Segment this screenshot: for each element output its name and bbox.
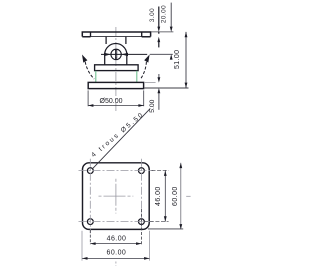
- dimension D50 line: [88, 105, 144, 107]
- dim 60 bottom ext right: [149, 231, 151, 261]
- rotation arrow right arc: [140, 62, 146, 79]
- centerline holes right column: [140, 159, 142, 229]
- hole bottom-left: [87, 219, 93, 225]
- centerline front view vertical: [115, 27, 117, 111]
- svg-text:60.00: 60.00: [107, 250, 127, 257]
- centerline holes left column: [89, 159, 91, 234]
- dim 46 bottom arrows: [90, 242, 95, 245]
- dim 46 right ext bottom: [144, 221, 168, 223]
- centerline holes top row: [79, 170, 154, 172]
- svg-text:46.00: 46.00: [155, 186, 162, 206]
- svg-text:4 trous Ø5.50: 4 trous Ø5.50: [90, 111, 146, 159]
- dimension 5.00 arrows: [158, 77, 161, 82]
- svg-text:60.00: 60.00: [172, 186, 179, 206]
- svg-text:3.00: 3.00: [149, 8, 156, 22]
- dim 46 bottom ext right: [140, 209, 142, 244]
- extension line plate top: [151, 31, 173, 33]
- centerline holes bottom row: [79, 221, 154, 223]
- dim 60 bottom line: [82, 257, 149, 259]
- dimension 20.00 arrows: [170, 27, 173, 32]
- svg-text:46.00: 46.00: [107, 235, 127, 242]
- leader line 4 holes: [92, 108, 150, 168]
- dimension 51.00 line: [185, 32, 187, 88]
- dim 60 right ext bottom: [148, 228, 183, 230]
- dimension 3.00 arrows: [157, 27, 160, 32]
- top plate: [82, 32, 150, 37]
- rotation arrow right head: [144, 55, 149, 63]
- center crosshair horizontal: [99, 195, 134, 197]
- extension line base bottom: [144, 87, 188, 89]
- dim 60 right line: [180, 163, 182, 230]
- extension line pivot center: [150, 53, 173, 55]
- pivot left arrowhead: [104, 53, 111, 56]
- pivot slot: [115, 50, 116, 60]
- dim 60 right arrows: [179, 163, 182, 168]
- hole top-right: [139, 168, 145, 174]
- svg-text:20.00: 20.00: [161, 5, 168, 23]
- mid block left green edge: [95, 71, 97, 82]
- pivot horizontal centerline: [101, 53, 147, 55]
- pivot right arrowhead: [121, 53, 128, 56]
- top plate right hole box: [142, 32, 151, 37]
- extension line base top: [145, 82, 156, 84]
- flange: [95, 65, 139, 71]
- dim 46 right arrows: [164, 171, 167, 176]
- dim 60 bottom ext left: [81, 231, 83, 261]
- mid block right green edge: [136, 71, 138, 82]
- dim 46 bottom line: [90, 243, 141, 245]
- hole bottom-right: [139, 219, 145, 225]
- dim 46 right line: [164, 171, 166, 222]
- bottom view square plate: [83, 163, 150, 230]
- dimension 20.00 line: [170, 3, 172, 27]
- centerline below 60 dim: [115, 262, 117, 267]
- dim 46 bottom ext left: [89, 230, 91, 244]
- clevis lug dome: [105, 44, 127, 65]
- svg-text:Ø50.00: Ø50.00: [100, 98, 123, 105]
- dimension 3.00 line: [158, 7, 160, 34]
- dim 60 bottom arrows: [82, 257, 87, 260]
- pivot hole circle: [111, 49, 121, 59]
- dimension D50 arrows: [88, 104, 93, 107]
- top plate left hole box: [82, 32, 90, 37]
- base plate: [88, 82, 143, 88]
- clevis column: [106, 37, 126, 44]
- rotation arrow left arc: [85, 62, 94, 79]
- rotation arrow left head: [82, 55, 87, 63]
- center crosshair vertical: [115, 179, 117, 214]
- dimension D50 extension right: [143, 90, 145, 106]
- hole top-left: [87, 168, 93, 174]
- svg-text:51.00: 51.00: [174, 50, 181, 69]
- dimension 51.00 arrows: [185, 32, 188, 37]
- dim 46 right ext top: [152, 169, 169, 171]
- dimension D50 extension left: [87, 90, 89, 106]
- center crosshair right remnant: [186, 195, 190, 197]
- dimension 5.00 line: [158, 74, 160, 80]
- svg-text:5.00: 5.00: [149, 99, 156, 112]
